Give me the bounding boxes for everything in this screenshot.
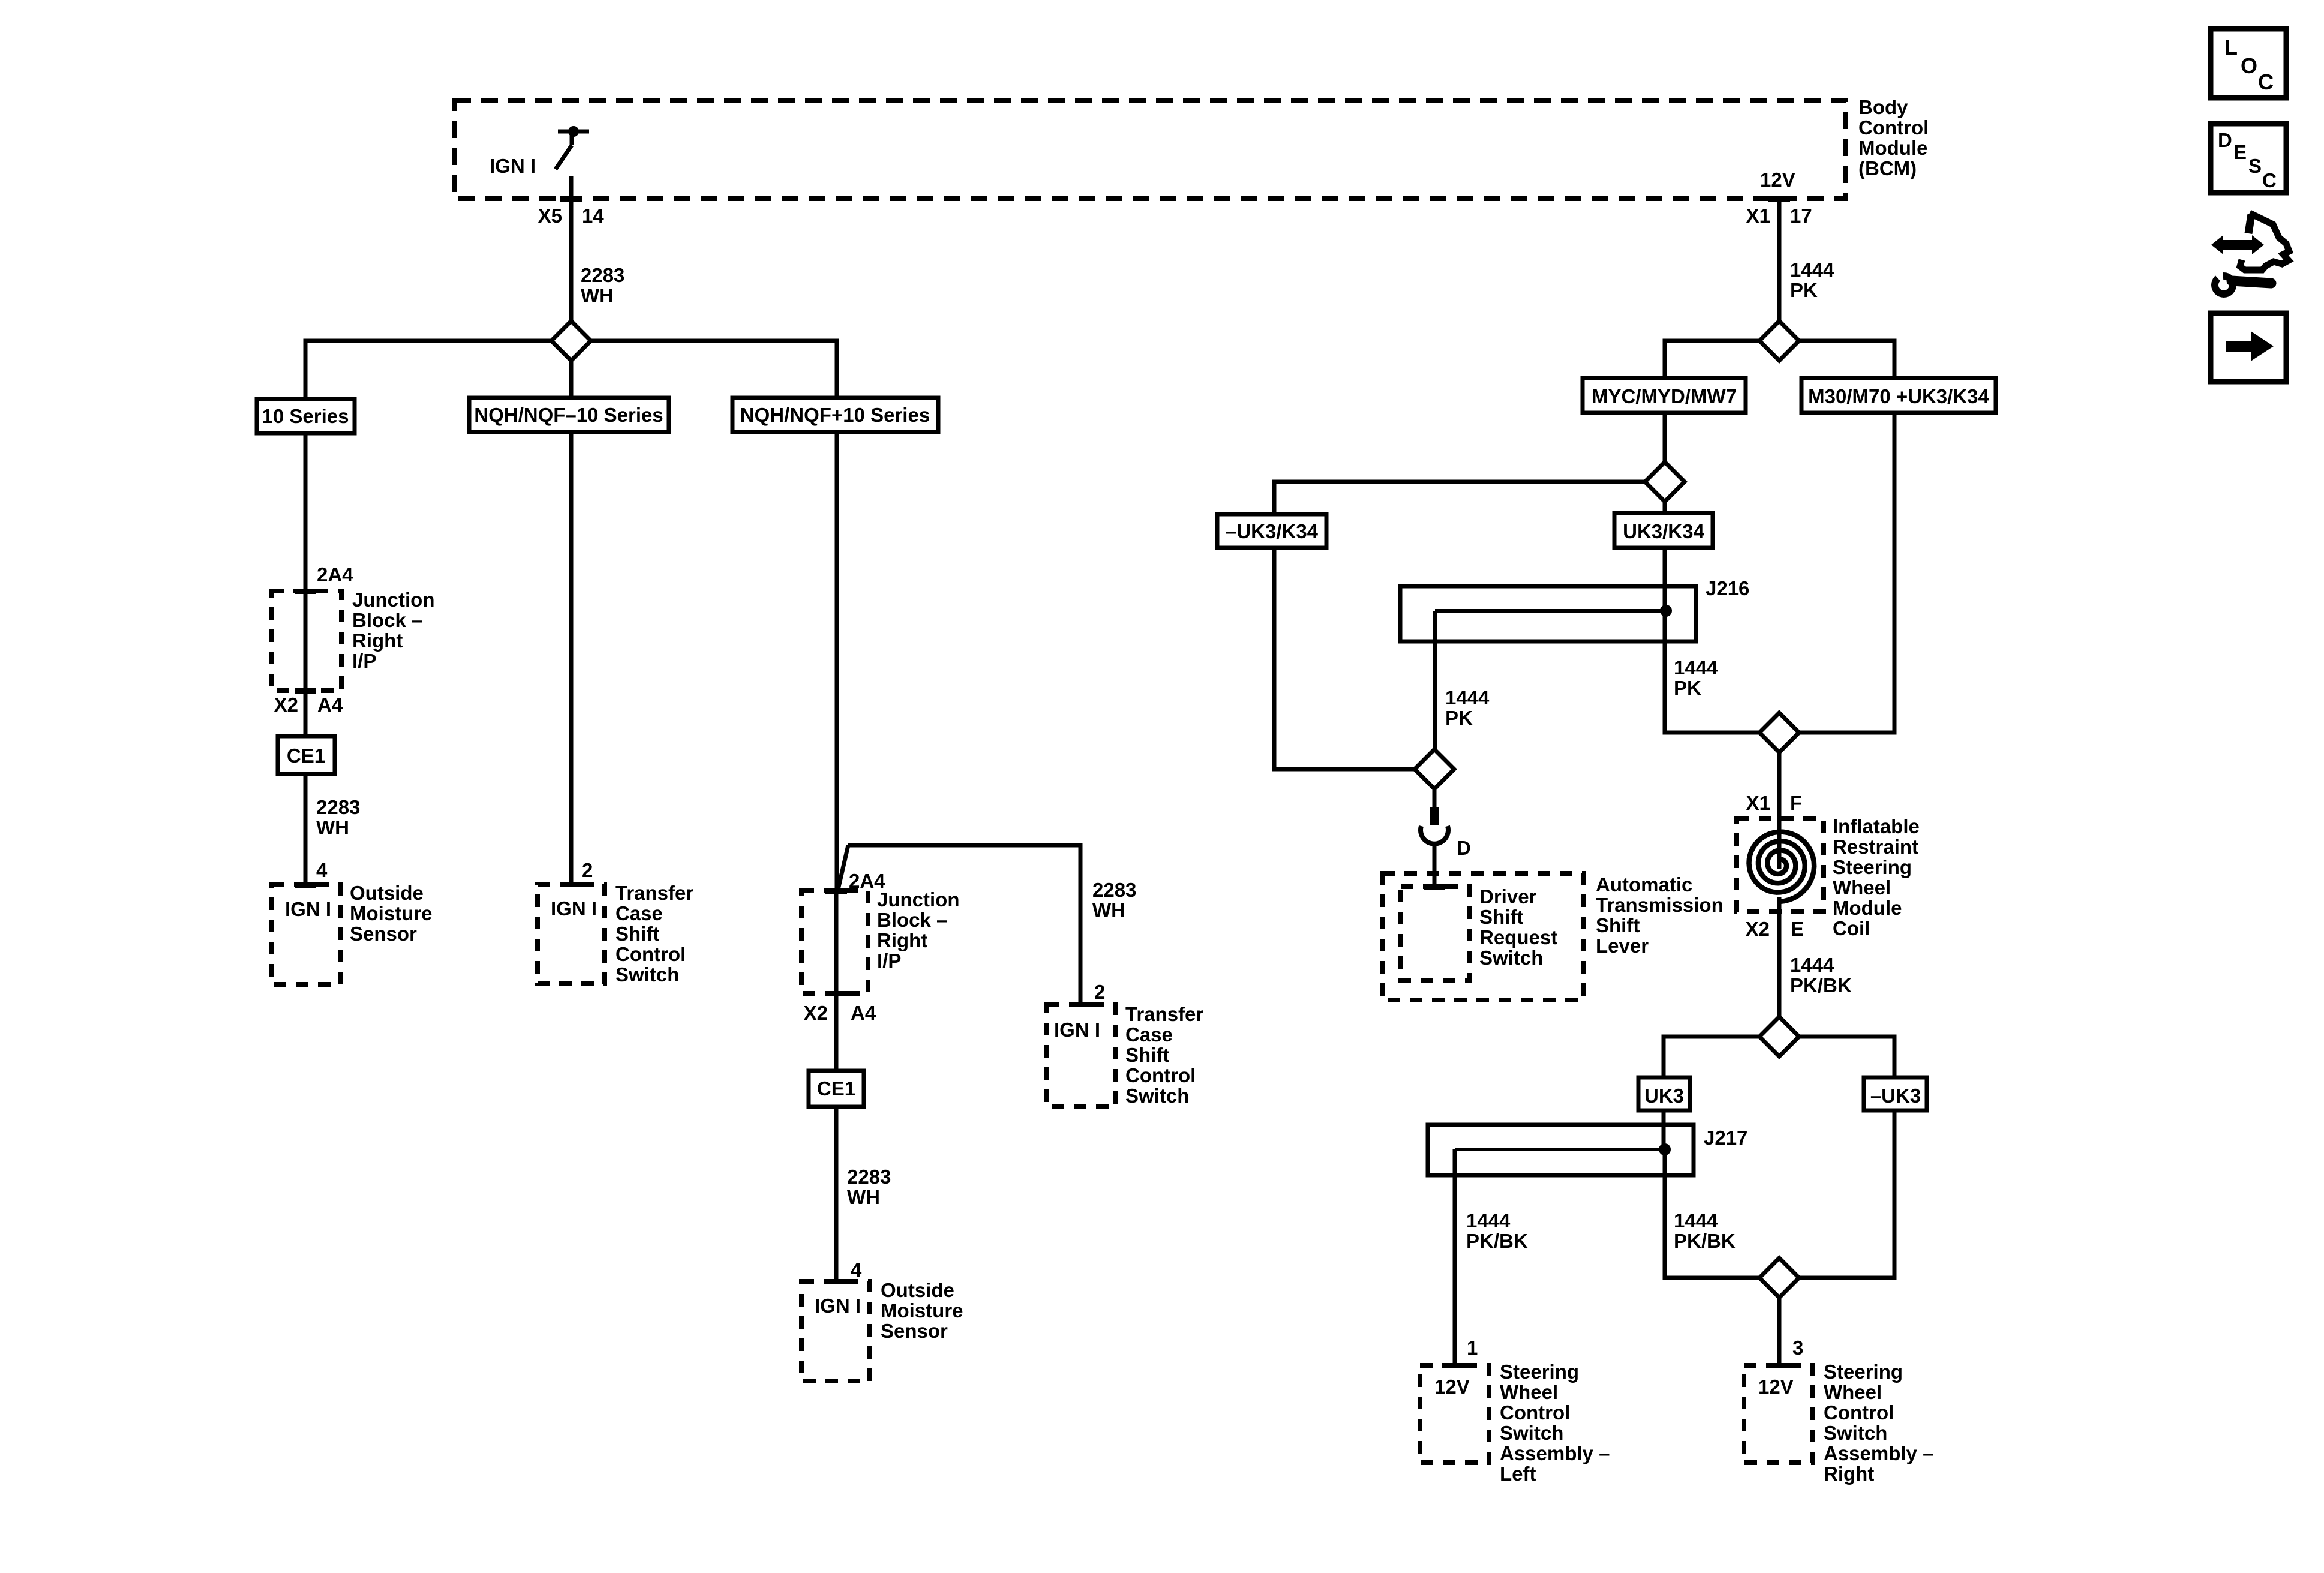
splice diamond S-G <box>1759 1258 1799 1298</box>
wire splice S-B right to M30/M70 +UK3/K34 <box>1799 341 1894 378</box>
svg-text:12V: 12V <box>1434 1376 1470 1398</box>
wire splice S-D down to steering wheel coil X1-F <box>1777 752 1782 833</box>
component box Driver Shift Request Switch dashed (inner) <box>1401 887 1470 981</box>
splice diamond S-D <box>1759 713 1799 752</box>
svg-text:Switch: Switch <box>615 963 679 986</box>
svg-text:Sensor: Sensor <box>350 923 417 945</box>
svg-text:Steering: Steering <box>1833 856 1912 878</box>
connector CE1 (first) <box>278 736 335 774</box>
svg-text:E: E <box>2233 141 2247 163</box>
svg-text:Junction: Junction <box>352 589 435 611</box>
svg-text:Junction: Junction <box>877 888 960 911</box>
svg-text:WH: WH <box>316 816 349 839</box>
svg-text:Transmission: Transmission <box>1596 894 1724 916</box>
wire from BCM X1-17 down to splice S-B <box>1777 199 1782 321</box>
svg-text:IGN I: IGN I <box>1054 1019 1100 1041</box>
wire splice S-F right to -UK3 box <box>1799 1037 1894 1077</box>
svg-text:IGN I: IGN I <box>490 155 536 177</box>
connector CE1 (second) <box>809 1071 864 1107</box>
svg-text:PK: PK <box>1445 707 1473 729</box>
wire through junction block <box>304 591 308 736</box>
wire -UK3 box down to splice S-G <box>1799 1110 1894 1278</box>
svg-text:Switch: Switch <box>1125 1085 1189 1107</box>
svg-text:A4: A4 <box>317 694 343 716</box>
svg-text:1444: 1444 <box>1790 954 1834 976</box>
svg-text:2A4: 2A4 <box>317 563 353 586</box>
svg-text:Right: Right <box>352 629 403 652</box>
svg-text:(BCM): (BCM) <box>1858 157 1917 179</box>
wire UK3/K34 down into splice pack J216 <box>1663 548 1667 611</box>
terminal tick at Outside Moisture Sensor pin 4 (second) <box>825 1279 847 1284</box>
junction block dashed box - Junction Block Right I/P (first) <box>271 591 341 691</box>
svg-text:Switch: Switch <box>1500 1422 1563 1444</box>
wire splice S-E down to inline connector <box>1433 789 1437 807</box>
option box -UK3 <box>1864 1077 1927 1110</box>
svg-text:Coil: Coil <box>1833 917 1870 939</box>
pass-through tick top of junction block second <box>825 888 847 894</box>
svg-text:Switch: Switch <box>1479 947 1543 969</box>
svg-text:Control: Control <box>615 943 686 965</box>
wire J217 left leg down to steering wheel switch left pin 1 <box>1453 1149 1457 1365</box>
svg-text:Request: Request <box>1479 926 1557 948</box>
svg-text:Lever: Lever <box>1596 935 1649 957</box>
svg-text:Shift: Shift <box>1596 914 1640 936</box>
component box Transfer Case Shift Control Switch (first) dashed <box>538 884 605 984</box>
wire bus left from splice S-A to 10 Series branch <box>305 341 551 399</box>
wire branch diagonal from junction block top to 2283 WH branch <box>838 845 848 890</box>
svg-text:2283: 2283 <box>581 264 624 286</box>
splice diamond S-C <box>1645 462 1685 502</box>
svg-text:Inflatable: Inflatable <box>1833 815 1920 837</box>
svg-text:Wheel: Wheel <box>1824 1381 1882 1403</box>
clockspring spiral (coil) <box>1749 832 1815 902</box>
svg-text:3: 3 <box>1792 1337 1803 1359</box>
svg-text:Assembly –: Assembly – <box>1500 1442 1610 1464</box>
svg-text:CE1: CE1 <box>817 1077 855 1100</box>
inline connector female cup <box>1421 826 1448 844</box>
svg-text:4: 4 <box>851 1259 862 1281</box>
pass-through tick bottom of junction block <box>295 688 316 694</box>
svg-text:Block –: Block – <box>352 609 422 631</box>
svg-text:Case: Case <box>1125 1023 1173 1046</box>
option box UK3 <box>1638 1077 1690 1110</box>
svg-text:UK3/K34: UK3/K34 <box>1623 520 1704 542</box>
svg-text:Restraint: Restraint <box>1833 836 1918 858</box>
svg-text:Moisture: Moisture <box>350 902 433 924</box>
wire CE1 second down to Outside Moisture Sensor second <box>834 1107 839 1281</box>
svg-text:Switch: Switch <box>1824 1422 1887 1444</box>
pin tick at BCM exit X5-14 <box>560 196 582 202</box>
junction block dashed box - Junction Block Right I/P (second) <box>801 891 868 993</box>
option box UK3/K34 <box>1614 513 1713 548</box>
svg-text:Transfer: Transfer <box>615 882 693 904</box>
wire splice S-F left to UK3 box <box>1664 1037 1759 1077</box>
svg-text:Shift: Shift <box>1479 906 1523 928</box>
svg-text:Left: Left <box>1500 1463 1536 1485</box>
svg-text:Transfer: Transfer <box>1125 1003 1203 1025</box>
svg-text:PK: PK <box>1790 279 1818 301</box>
terminal tick at right 12V box pin 3 <box>1768 1363 1790 1368</box>
svg-text:Outside: Outside <box>350 882 424 904</box>
wire M30/M70 branch down to splice S-D <box>1799 413 1894 733</box>
svg-text:1444: 1444 <box>1674 656 1718 679</box>
svg-text:IGN I: IGN I <box>815 1295 861 1317</box>
svg-text:Moisture: Moisture <box>881 1299 963 1322</box>
wire splice S-C left to -UK3/K34 box <box>1274 482 1645 514</box>
icon button forward arrow <box>2211 313 2286 382</box>
splice pack J216 outline <box>1400 586 1696 641</box>
option box NQH/NQF-10 Series <box>469 398 669 432</box>
svg-text:4: 4 <box>316 859 328 881</box>
component box 12V Steering Wheel Control Switch Assembly Left dashed <box>1420 1365 1489 1463</box>
terminal tick at Transfer Case switch pin 2 (second) <box>1070 1002 1091 1007</box>
svg-text:X1: X1 <box>1746 792 1770 814</box>
splice diamond S-B (1444 PK) <box>1759 321 1799 361</box>
svg-text:Wheel: Wheel <box>1500 1381 1558 1403</box>
wire coil X2-E down to splice S-F <box>1777 912 1782 1017</box>
svg-text:Right: Right <box>1824 1463 1874 1485</box>
svg-text:Assembly –: Assembly – <box>1824 1442 1933 1464</box>
svg-text:Block –: Block – <box>877 909 947 931</box>
svg-text:2283: 2283 <box>316 796 360 818</box>
svg-text:Case: Case <box>615 902 663 924</box>
wire inline connector down to driver shift request switch <box>1433 842 1437 887</box>
wire UK3 box down into splice pack J217 <box>1662 1110 1666 1149</box>
svg-text:Right: Right <box>877 929 927 951</box>
svg-text:M30/M70 +UK3/K34: M30/M70 +UK3/K34 <box>1808 385 1989 407</box>
component box Automatic Transmission Shift Lever dashed (outer) <box>1382 873 1583 1000</box>
svg-text:1444: 1444 <box>1790 259 1834 281</box>
pin tick at BCM exit X1-17 <box>1768 196 1790 202</box>
svg-text:WH: WH <box>1092 899 1125 921</box>
svg-text:Driver: Driver <box>1479 885 1537 908</box>
coil entry wire into spiral <box>1777 819 1782 869</box>
wire through junction block second <box>834 891 839 1071</box>
wire J216 left leg down to splice S-E <box>1433 611 1437 749</box>
wire -UK3/K34 box down to splice S-E <box>1274 548 1415 769</box>
svg-text:Automatic: Automatic <box>1596 873 1692 896</box>
svg-text:J216: J216 <box>1706 577 1749 599</box>
wire splice S-A down to NQH/NQF-10 Series box <box>569 361 574 398</box>
wire splice S-C down to UK3/K34 box <box>1663 502 1667 513</box>
svg-text:MYC/MYD/MW7: MYC/MYD/MW7 <box>1592 385 1737 407</box>
svg-text:Outside: Outside <box>881 1279 954 1301</box>
svg-text:F: F <box>1790 792 1802 814</box>
svg-text:–UK3: –UK3 <box>1870 1085 1921 1107</box>
svg-text:IGN I: IGN I <box>285 898 331 920</box>
option box MYC/MYD/MW7 <box>1583 378 1746 413</box>
svg-text:1: 1 <box>1467 1337 1478 1359</box>
svg-text:Control: Control <box>1500 1401 1570 1424</box>
component box Inflatable Restraint Steering Wheel Module Coil dashed <box>1737 819 1824 912</box>
svg-text:12V: 12V <box>1760 169 1795 191</box>
svg-text:Module: Module <box>1833 897 1902 919</box>
splice diamond S-E <box>1415 749 1454 789</box>
svg-text:Shift: Shift <box>615 923 659 945</box>
svg-text:2283: 2283 <box>1092 879 1136 901</box>
svg-text:Control: Control <box>1125 1064 1196 1086</box>
J216 junction dot <box>1660 605 1672 617</box>
wire from BCM X5-14 down to splice S-A <box>569 176 574 321</box>
svg-text:Sensor: Sensor <box>881 1320 948 1342</box>
svg-text:Control: Control <box>1858 116 1929 139</box>
svg-text:C: C <box>2258 70 2274 94</box>
splice diamond S-A (2283 WH) <box>551 321 591 361</box>
svg-text:10 Series: 10 Series <box>262 405 349 427</box>
option box M30/M70 +UK3/K34 <box>1801 378 1996 413</box>
svg-text:WH: WH <box>581 284 614 307</box>
wire branch horizontal to Transfer Case switch (second) <box>848 845 1080 1004</box>
coil exit wire <box>1777 897 1782 913</box>
svg-text:1444: 1444 <box>1674 1209 1718 1232</box>
wire bus right from splice S-A to NQH/NQF+10 branch <box>591 341 837 398</box>
wire splice S-G down to steering wheel switch right pin 3 <box>1777 1298 1782 1365</box>
icon button DESC <box>2211 124 2286 193</box>
terminal tick at Transfer Case switch pin 2 (first) <box>560 882 582 887</box>
svg-text:Control: Control <box>1824 1401 1894 1424</box>
J217 junction dot <box>1659 1143 1671 1155</box>
J217 internal bus bar <box>1455 1148 1665 1151</box>
module box U1 Body Control Module (BCM) dashed outline <box>454 100 1846 199</box>
svg-text:X5: X5 <box>538 205 562 227</box>
svg-text:PK/BK: PK/BK <box>1790 974 1852 996</box>
svg-text:WH: WH <box>847 1186 880 1208</box>
svg-text:E: E <box>1791 918 1804 940</box>
terminal tick at driver shift request switch pin D <box>1424 884 1445 890</box>
svg-text:X2: X2 <box>1746 918 1770 940</box>
terminal tick at left 12V box pin 1 <box>1444 1363 1466 1368</box>
pass-through tick top of junction block <box>295 589 316 594</box>
component box Transfer Case Shift Control Switch (second) dashed <box>1047 1004 1115 1107</box>
svg-text:J217: J217 <box>1704 1127 1747 1149</box>
component box Outside Moisture Sensor (second) dashed <box>801 1281 870 1381</box>
svg-text:2283: 2283 <box>847 1166 891 1188</box>
wire splice S-B left to MYC/MYD/MW7 <box>1665 341 1759 378</box>
svg-text:CE1: CE1 <box>287 745 325 767</box>
icon button LOC <box>2211 29 2286 98</box>
svg-text:PK/BK: PK/BK <box>1674 1230 1736 1252</box>
terminal tick at Outside Moisture Sensor pin 4 <box>295 882 316 888</box>
wire NQH/NQF+10 Series down to junction block J2 <box>835 432 839 891</box>
svg-text:I/P: I/P <box>877 950 901 972</box>
svg-text:X2: X2 <box>804 1002 828 1024</box>
svg-text:12V: 12V <box>1758 1376 1794 1398</box>
svg-text:Body: Body <box>1858 96 1908 118</box>
svg-text:NQH/NQF–10 Series: NQH/NQF–10 Series <box>474 404 663 426</box>
svg-text:IGN I: IGN I <box>551 897 597 920</box>
component box Outside Moisture Sensor (first) dashed <box>272 885 340 984</box>
wire J217 right leg down to splice S-G <box>1665 1149 1759 1278</box>
svg-text:L: L <box>2224 35 2238 59</box>
splice pack J217 outline <box>1428 1125 1694 1175</box>
svg-text:C: C <box>2262 169 2277 191</box>
svg-text:I/P: I/P <box>352 650 376 672</box>
splice diamond S-F <box>1759 1017 1799 1056</box>
svg-text:17: 17 <box>1790 205 1812 227</box>
svg-text:Shift: Shift <box>1125 1044 1169 1066</box>
component box 12V Steering Wheel Control Switch Assembly Right dashed <box>1744 1365 1813 1463</box>
svg-text:PK/BK: PK/BK <box>1466 1230 1528 1252</box>
wire MYC/MYD/MW7 down to splice S-C <box>1663 413 1667 462</box>
switch S1 IGN I ignition switch symbol <box>556 126 589 169</box>
svg-text:A4: A4 <box>851 1002 876 1024</box>
svg-text:D: D <box>2218 129 2232 151</box>
wire J216 right leg down to splice S-D <box>1665 611 1759 733</box>
svg-text:14: 14 <box>582 205 604 227</box>
svg-text:X2: X2 <box>274 694 298 716</box>
svg-text:D: D <box>1457 837 1471 859</box>
svg-text:S: S <box>2248 155 2262 177</box>
svg-text:2: 2 <box>1094 981 1105 1003</box>
svg-text:1444: 1444 <box>1466 1209 1511 1232</box>
svg-text:X1: X1 <box>1746 205 1770 227</box>
svg-text:NQH/NQF+10 Series: NQH/NQF+10 Series <box>740 404 930 426</box>
wire CE1 down to Outside Moisture Sensor <box>304 774 308 885</box>
wire NQH/NQF-10 Series down to Transfer Case switch <box>569 432 574 884</box>
svg-text:1444: 1444 <box>1445 686 1490 709</box>
svg-text:Wheel: Wheel <box>1833 876 1891 899</box>
svg-text:–UK3/K34: –UK3/K34 <box>1226 520 1319 542</box>
svg-text:UK3: UK3 <box>1644 1085 1684 1107</box>
svg-text:Module: Module <box>1858 137 1927 159</box>
icon wrench-route (repair instructions) <box>2209 213 2289 298</box>
J216 internal bus bar <box>1435 609 1666 613</box>
svg-text:PK: PK <box>1674 677 1701 699</box>
option box -UK3/K34 <box>1217 514 1326 548</box>
pass-through tick bottom of junction block second <box>825 991 847 996</box>
option box NQH/NQF+10 Series <box>732 398 938 432</box>
svg-text:2: 2 <box>582 859 593 881</box>
option box 10 Series <box>257 399 355 433</box>
svg-text:O: O <box>2241 53 2257 78</box>
wire 10 Series box down to junction block J1 <box>304 433 308 591</box>
svg-text:Steering: Steering <box>1824 1361 1903 1383</box>
inline connector male blade <box>1430 807 1439 825</box>
svg-text:Steering: Steering <box>1500 1361 1579 1383</box>
